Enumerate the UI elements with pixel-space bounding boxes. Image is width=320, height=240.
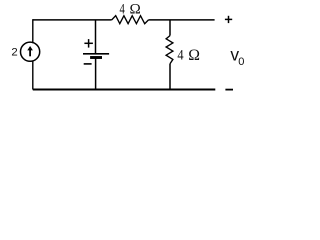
svg-text:2: 2 — [11, 47, 17, 59]
current source I1 (2 A) circle — [21, 42, 40, 61]
svg-text:0: 0 — [238, 56, 244, 68]
battery V1 negative plate (short thick) — [90, 56, 102, 59]
wire: left branch upper (top bus down to current source) — [32, 19, 34, 43]
wire: right branch lower (R2 to bottom bus) — [169, 64, 171, 90]
wire: top bus left segment (node A to R1) — [33, 19, 112, 21]
svg-text:Ω: Ω — [130, 0, 141, 17]
wire: top bus right segment (R1 to output + terminal) — [149, 19, 215, 21]
svg-text:Ω: Ω — [188, 47, 200, 64]
output terminal + mark — [225, 16, 232, 23]
current source arrow (upward) — [27, 46, 33, 56]
battery − polarity mark — [84, 63, 92, 65]
svg-text:4: 4 — [120, 0, 126, 17]
battery + polarity mark — [84, 39, 93, 48]
wire: bottom bus — [33, 89, 216, 91]
resistor R1 4Ω (top horizontal zigzag) — [112, 16, 149, 24]
wire: right branch upper (top bus down to R2) — [169, 20, 171, 36]
resistor R2 4Ω (right vertical zigzag) — [166, 36, 173, 64]
wire: left branch lower (current source to bottom bus) — [32, 61, 34, 90]
svg-text:4: 4 — [177, 47, 183, 63]
wire: battery upper lead — [95, 20, 97, 54]
output terminal − mark — [225, 89, 233, 91]
wire: battery lower lead — [95, 58, 97, 89]
battery V1 positive plate (long) — [83, 53, 109, 55]
